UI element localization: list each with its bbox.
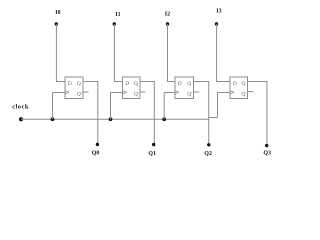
wire Q' stub of U1 xyxy=(83,91,89,93)
node I3 xyxy=(215,22,218,25)
wire Q of U2 horizontal xyxy=(140,81,155,83)
wire I1 vertical xyxy=(113,24,115,82)
svg-text:Q: Q xyxy=(242,81,246,87)
svg-text:Q2: Q2 xyxy=(204,151,212,157)
svg-text:D: D xyxy=(178,81,182,87)
wire clock to U4 xyxy=(218,92,231,94)
wire I2 vertical xyxy=(167,24,169,82)
node I0 xyxy=(55,22,58,25)
wire Q of U4 horizontal xyxy=(248,81,268,83)
node I2 xyxy=(166,22,169,25)
wire clock to U1 xyxy=(53,92,66,94)
wire Q of U2 vertical to Q1 xyxy=(153,82,155,145)
wire clock riser to U4 xyxy=(217,93,219,118)
wire clock riser to U3 xyxy=(163,93,165,120)
node I1 xyxy=(113,22,116,25)
wire clock to U3 xyxy=(164,92,175,94)
node Q2 xyxy=(207,143,210,146)
svg-text:Q: Q xyxy=(187,81,191,87)
svg-text:Q0: Q0 xyxy=(92,151,100,157)
node clock junction 3 xyxy=(162,117,166,121)
svg-text:Q: Q xyxy=(77,81,81,87)
wire I3 vertical xyxy=(216,24,218,82)
svg-text:I1: I1 xyxy=(115,12,120,18)
wire Q of U1 vertical to Q0 xyxy=(97,82,99,145)
wire Q of U3 vertical to Q2 xyxy=(208,82,210,145)
wire I0 to D of U1 xyxy=(56,81,65,83)
wire I3 to D of U4 xyxy=(216,81,230,83)
node clock junction 2 xyxy=(109,117,113,121)
svg-text:D: D xyxy=(68,81,72,87)
node clock junction 1 xyxy=(51,117,55,121)
flip-flop U1 xyxy=(65,77,83,99)
node clock terminal xyxy=(19,117,23,121)
clock triangle of U1 xyxy=(65,91,69,95)
wire I0 vertical xyxy=(55,24,57,82)
clock triangle of U3 xyxy=(175,91,179,95)
svg-text:I2: I2 xyxy=(165,11,170,17)
wire Q of U1 horizontal xyxy=(83,81,98,83)
wire Q of U3 horizontal xyxy=(194,81,210,83)
svg-text:clock: clock xyxy=(12,103,29,110)
wire clock to U2 xyxy=(111,92,123,94)
svg-text:Q': Q' xyxy=(77,91,82,97)
svg-text:Q': Q' xyxy=(242,91,247,97)
node Q3 xyxy=(265,144,268,147)
wire Q' stub of U4 xyxy=(248,91,254,93)
svg-text:Q1: Q1 xyxy=(148,151,156,157)
svg-text:Q': Q' xyxy=(187,91,192,97)
svg-text:D: D xyxy=(233,81,237,87)
clock triangle of U4 xyxy=(230,91,234,95)
svg-text:I0: I0 xyxy=(55,10,60,16)
wire Q' stub of U2 xyxy=(140,91,145,93)
wire I1 to D of U2 xyxy=(114,81,123,83)
flip-flop U3 xyxy=(175,77,194,99)
wire Q' stub of U3 xyxy=(194,91,200,93)
wire clock bus xyxy=(21,118,209,120)
wire Q of U4 vertical to Q3 xyxy=(266,82,268,146)
svg-text:I3: I3 xyxy=(216,8,221,14)
flip-flop U2 xyxy=(123,77,141,99)
wire clock riser to U1 xyxy=(52,93,54,120)
svg-text:Q: Q xyxy=(134,81,138,87)
wire I2 to D of U3 xyxy=(167,81,175,83)
clock triangle of U2 xyxy=(123,91,127,95)
flip-flop U4 xyxy=(230,77,248,99)
wire clock riser to U2 xyxy=(110,93,112,120)
node Q0 xyxy=(96,143,99,146)
node Q1 xyxy=(152,143,155,146)
wire clock bus jog horizontal xyxy=(209,117,218,119)
svg-text:D: D xyxy=(125,81,129,87)
svg-text:Q': Q' xyxy=(134,91,139,97)
svg-text:Q3: Q3 xyxy=(263,150,271,156)
